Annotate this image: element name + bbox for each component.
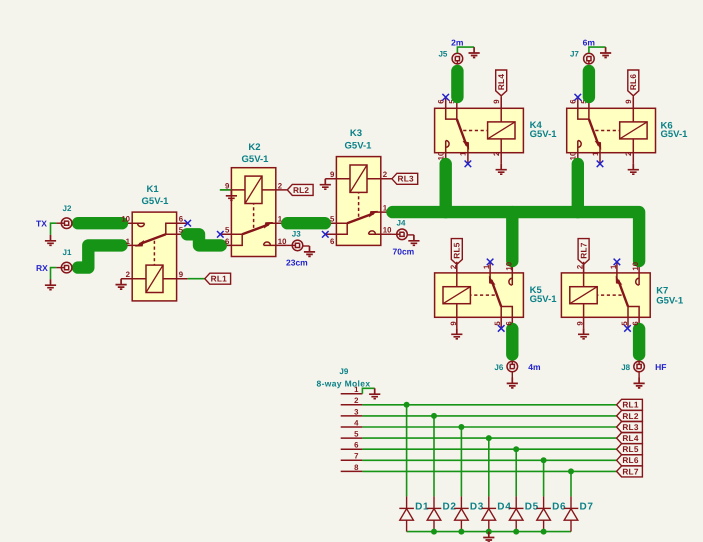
svg-text:G5V-1: G5V-1 xyxy=(530,129,558,140)
svg-text:1: 1 xyxy=(354,385,359,394)
wire K7 pin6 to J8 xyxy=(633,329,645,355)
svg-text:G5V-1: G5V-1 xyxy=(656,296,684,307)
K6 pin2 ground xyxy=(628,164,639,174)
junction xyxy=(404,402,410,408)
K2 coil slash xyxy=(245,176,262,203)
svg-text:23cm: 23cm xyxy=(286,258,308,268)
J9 pin 3 xyxy=(341,415,363,417)
svg-text:D4: D4 xyxy=(497,502,511,513)
svg-text:6: 6 xyxy=(179,215,184,224)
wire K1 pin5 to K2 pin6 (thick) xyxy=(187,234,221,245)
diode D6 xyxy=(536,496,551,531)
J9 pin 4 xyxy=(341,426,363,428)
hierarchical label RL7 xyxy=(617,466,643,477)
diode D5 xyxy=(509,496,524,531)
K1 coil slash xyxy=(146,265,163,292)
svg-text:G5V-1: G5V-1 xyxy=(142,196,170,207)
ground at TX wire xyxy=(45,235,56,245)
wire drop to diode D6 xyxy=(543,460,545,496)
connector J2 xyxy=(56,222,61,224)
junction rail xyxy=(458,529,464,535)
wire bus branch down to K5 pin10 xyxy=(506,212,518,261)
relay K6 (G5V-1) xyxy=(567,97,656,164)
junction rail xyxy=(486,529,492,535)
svg-text:RL7: RL7 xyxy=(579,242,589,258)
svg-text:2: 2 xyxy=(624,151,633,156)
connector J5 xyxy=(452,53,463,64)
J9 pin 5 xyxy=(341,437,363,439)
svg-text:RL2: RL2 xyxy=(293,185,309,195)
wire J2 to K1 pin10 (thick) xyxy=(78,217,122,229)
svg-text:D6: D6 xyxy=(552,502,566,513)
svg-text:9: 9 xyxy=(624,99,633,104)
hierarchical label RL6 xyxy=(632,96,634,109)
svg-text:4: 4 xyxy=(354,418,359,427)
diode D4 xyxy=(482,496,497,531)
K4 pin2 ground xyxy=(496,164,507,174)
svg-text:HF: HF xyxy=(655,362,666,372)
no-connect K7 pin5 xyxy=(624,325,631,332)
svg-text:J7: J7 xyxy=(570,49,579,58)
svg-text:2: 2 xyxy=(354,396,359,405)
svg-text:8: 8 xyxy=(354,463,359,472)
K4 coil slash xyxy=(488,122,515,139)
svg-text:1: 1 xyxy=(278,215,283,224)
hierarchical label RL5 xyxy=(617,444,643,455)
svg-text:10: 10 xyxy=(121,215,130,224)
wire RX to J1 / ground xyxy=(51,268,57,280)
svg-text:2m: 2m xyxy=(451,38,464,48)
svg-text:1: 1 xyxy=(383,204,388,213)
wire J9 pin4 to RL3 xyxy=(362,426,616,428)
wire J5 to K4 pin5 xyxy=(451,71,463,97)
wire J9 pin8 to RL7 xyxy=(362,470,616,472)
wire drop to diode D5 xyxy=(515,449,517,496)
relay K3 (G5V-1) xyxy=(325,157,392,246)
svg-text:9: 9 xyxy=(492,99,501,104)
svg-text:10: 10 xyxy=(278,237,287,246)
svg-text:J3: J3 xyxy=(292,230,301,239)
hierarchical label RL3 xyxy=(392,173,418,184)
svg-text:1: 1 xyxy=(591,151,600,156)
wire drop to diode D3 xyxy=(460,427,462,496)
hierarchical label RL1 xyxy=(617,399,643,410)
diode D1 xyxy=(399,496,414,531)
connector J6 xyxy=(507,361,518,372)
svg-text:10: 10 xyxy=(383,226,392,235)
svg-text:J9: J9 xyxy=(339,367,348,376)
svg-text:5: 5 xyxy=(354,430,359,439)
relay K7 (G5V-1) xyxy=(561,262,650,329)
svg-text:1: 1 xyxy=(126,237,131,246)
svg-text:9: 9 xyxy=(330,170,335,179)
svg-text:G5V-1: G5V-1 xyxy=(242,154,270,165)
K1 pin2 lead and ground xyxy=(116,279,127,289)
junction rail xyxy=(513,529,519,535)
svg-text:2: 2 xyxy=(492,151,501,156)
svg-text:RX: RX xyxy=(36,263,48,273)
wire drop to diode D2 xyxy=(433,416,435,497)
no-connect K4 pin6 xyxy=(442,94,449,101)
ground at RX wire xyxy=(45,279,56,289)
svg-text:RL4: RL4 xyxy=(622,433,638,443)
K6 coil slash xyxy=(620,122,647,139)
connector J1 xyxy=(56,267,61,269)
svg-text:5: 5 xyxy=(225,226,230,235)
no-connect K5 pin1 xyxy=(487,259,494,266)
svg-text:8-way Molex: 8-way Molex xyxy=(317,378,371,388)
relay K4 (G5V-1) xyxy=(435,97,524,164)
svg-text:TX: TX xyxy=(36,219,47,229)
K5 coil slash xyxy=(443,287,470,304)
connector J4 xyxy=(392,233,397,235)
hierarchical label RL3 xyxy=(617,422,643,433)
connector J8 xyxy=(634,361,645,372)
relay K5 (G5V-1) xyxy=(435,262,524,329)
junction rail xyxy=(431,529,437,535)
J9 pin 8 xyxy=(341,470,363,472)
rail ground xyxy=(483,532,494,542)
K7 pin9 ground xyxy=(578,328,589,338)
svg-text:10: 10 xyxy=(631,261,640,270)
svg-text:6: 6 xyxy=(330,237,335,246)
relay K2 (G5V-1) xyxy=(220,168,287,257)
svg-text:RL2: RL2 xyxy=(622,411,638,421)
svg-text:1: 1 xyxy=(459,151,468,156)
K5 pin9 ground xyxy=(451,328,462,338)
svg-text:2: 2 xyxy=(278,181,283,190)
wire TX to J2 / ground xyxy=(51,223,57,235)
svg-text:10: 10 xyxy=(504,261,513,270)
svg-text:5: 5 xyxy=(493,321,502,326)
svg-text:D2: D2 xyxy=(443,502,457,513)
diode D7 xyxy=(564,496,579,531)
diode D3 xyxy=(454,496,469,531)
J9 pin 2 xyxy=(341,404,363,406)
K3 pin9 ground xyxy=(320,179,331,189)
svg-text:RL4: RL4 xyxy=(496,74,506,90)
svg-text:D1: D1 xyxy=(415,502,429,513)
svg-text:6: 6 xyxy=(631,321,640,326)
wire J9 pin7 to RL6 xyxy=(362,459,616,461)
K3 coil slash xyxy=(350,165,367,192)
no-connect K2 pin5 xyxy=(217,231,224,238)
no-connect K7 pin1 xyxy=(614,259,621,266)
wire J7 to K6 pin5 xyxy=(583,71,595,97)
no-connect K5 pin5 xyxy=(498,325,505,332)
no-connect K6 pin1 xyxy=(597,161,604,168)
hierarchical label RL1 xyxy=(205,273,231,284)
svg-text:5: 5 xyxy=(330,215,335,224)
hierarchical label RL2 xyxy=(287,184,313,195)
svg-text:D7: D7 xyxy=(580,502,594,513)
junction xyxy=(486,435,492,441)
svg-text:9: 9 xyxy=(179,270,184,279)
wire J9 pin5 to RL4 xyxy=(362,437,616,439)
connector J7 xyxy=(584,53,595,64)
svg-text:J1: J1 xyxy=(63,248,72,257)
svg-text:RL3: RL3 xyxy=(622,422,638,432)
junction xyxy=(431,413,437,419)
wire J9 pin6 to RL5 xyxy=(362,448,616,450)
svg-text:J2: J2 xyxy=(63,204,72,213)
wire bus branch up to K4 pin10 xyxy=(440,164,452,212)
no-connect K4 pin1 xyxy=(465,161,472,168)
svg-text:RL5: RL5 xyxy=(622,444,638,454)
svg-text:J4: J4 xyxy=(397,218,406,227)
J9 pin1 ground wire xyxy=(362,388,374,393)
svg-text:RL6: RL6 xyxy=(628,74,638,90)
svg-text:3: 3 xyxy=(354,407,359,416)
wire J1 to K1 pin1 (thick) xyxy=(78,245,122,267)
connector J3 xyxy=(287,244,293,246)
svg-text:2: 2 xyxy=(126,270,131,279)
svg-text:G5V-1: G5V-1 xyxy=(661,129,689,140)
hierarchical label RL4 xyxy=(500,96,502,109)
hierarchical label RL7 xyxy=(583,264,585,273)
svg-text:G5V-1: G5V-1 xyxy=(345,141,373,152)
wire K1 pin9 to RL1 xyxy=(188,278,205,280)
svg-text:RL1: RL1 xyxy=(622,400,638,410)
relay K1 (G5V-1) xyxy=(121,212,188,301)
wire drop to diode D1 xyxy=(406,405,408,497)
svg-text:K3: K3 xyxy=(350,128,362,139)
wire drop to diode D4 xyxy=(488,438,490,496)
wire K2 pin1 to K3 pin5 (thick) xyxy=(287,217,325,229)
wire J9 pin2 to RL1 xyxy=(362,404,616,406)
svg-text:RL6: RL6 xyxy=(622,455,638,465)
svg-text:D5: D5 xyxy=(525,502,539,513)
wire J9 pin3 to RL2 xyxy=(362,415,616,417)
junction xyxy=(541,457,547,463)
no-connect K3 pin6 xyxy=(322,231,329,238)
J9 pin 6 xyxy=(341,448,363,450)
wire bus: K3 pin1 to K7 pin10 (thick) xyxy=(393,212,640,261)
hierarchical label RL2 xyxy=(617,410,643,421)
svg-text:70cm: 70cm xyxy=(393,246,415,256)
svg-text:RL3: RL3 xyxy=(398,174,414,184)
svg-text:RL5: RL5 xyxy=(452,242,462,258)
svg-text:9: 9 xyxy=(225,181,230,190)
svg-text:J5: J5 xyxy=(438,49,447,58)
J9 pin 7 xyxy=(341,459,363,461)
svg-text:G5V-1: G5V-1 xyxy=(530,294,558,305)
svg-text:RL1: RL1 xyxy=(211,274,227,284)
svg-text:6: 6 xyxy=(225,237,230,246)
svg-text:6: 6 xyxy=(504,321,513,326)
svg-text:J8: J8 xyxy=(621,363,630,372)
hierarchical label RL4 xyxy=(617,433,643,444)
svg-text:9: 9 xyxy=(449,321,458,326)
J9 pin 1 xyxy=(341,393,363,395)
hierarchical label RL5 xyxy=(456,264,458,273)
svg-text:J6: J6 xyxy=(494,363,503,372)
hierarchical label RL6 xyxy=(617,455,643,466)
svg-text:7: 7 xyxy=(354,452,358,461)
junction xyxy=(568,468,574,474)
svg-text:5: 5 xyxy=(179,226,184,235)
svg-text:2: 2 xyxy=(383,170,388,179)
svg-text:K1: K1 xyxy=(147,184,160,195)
svg-text:K2: K2 xyxy=(248,142,260,153)
K2 pin9 wire and ground xyxy=(220,189,232,191)
svg-text:4m: 4m xyxy=(528,362,541,372)
svg-text:9: 9 xyxy=(576,321,585,326)
junction rail xyxy=(541,529,547,535)
wire bus branch up to K6 pin10 xyxy=(572,164,584,212)
no-connect K6 pin6 xyxy=(575,94,582,101)
svg-text:6: 6 xyxy=(354,441,359,450)
svg-text:RL7: RL7 xyxy=(622,466,638,476)
junction xyxy=(458,424,464,430)
diode common rail xyxy=(407,531,571,533)
no-connect K1 pin6 xyxy=(184,220,191,227)
diode D2 xyxy=(427,496,442,531)
K7 coil slash xyxy=(570,287,597,304)
junction xyxy=(513,446,519,452)
svg-text:6m: 6m xyxy=(583,38,596,48)
svg-text:D3: D3 xyxy=(470,502,484,513)
wire drop to diode D7 xyxy=(570,471,572,496)
wire K5 pin6 to J6 xyxy=(506,329,518,355)
